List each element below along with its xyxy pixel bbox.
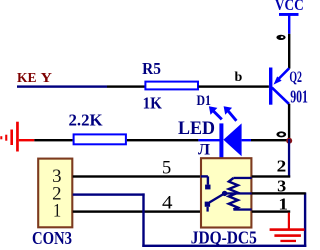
svg-text:VCC: VCC <box>275 0 304 14</box>
svg-text:4: 4 <box>162 193 173 214</box>
pin ellipse near emitter <box>276 131 286 137</box>
wire base <box>199 85 269 87</box>
relay contact lower terminal <box>205 202 210 212</box>
resistor R5 <box>145 82 198 90</box>
svg-text:Y: Y <box>41 71 53 86</box>
relay coil <box>229 178 238 210</box>
svg-text:2: 2 <box>277 157 287 176</box>
svg-text:1: 1 <box>53 201 61 221</box>
pin ellipse near VCC <box>276 35 285 40</box>
svg-text:D1: D1 <box>197 93 212 109</box>
svg-text:KE: KE <box>17 71 37 86</box>
wire KEY navy segment <box>17 85 107 87</box>
wire black to resistor 2.2K <box>34 139 72 141</box>
connector CON3 <box>38 159 72 228</box>
wire CON3 pin1 to relay pin4 <box>73 210 201 212</box>
svg-text:R5: R5 <box>142 59 161 78</box>
ground left red <box>0 122 19 152</box>
wire navy vertical right <box>304 193 306 247</box>
wire navy bottom horizontal <box>142 245 306 247</box>
wire relay pin3 to right <box>252 192 306 194</box>
relay coil top wire <box>233 177 251 179</box>
wire VCC stem blue <box>288 15 290 34</box>
svg-text:LED: LED <box>178 119 215 139</box>
svg-text:2.2K: 2.2K <box>69 111 104 130</box>
svg-text:1K: 1K <box>143 94 163 113</box>
wire VCC stem black <box>288 34 290 69</box>
wire navy vertical left <box>142 193 144 247</box>
relay arm joint dot <box>222 191 227 196</box>
LED D1 <box>198 106 251 158</box>
wire LED to junction <box>251 139 288 141</box>
wire CON3 pin3 to relay pin5 <box>73 175 201 177</box>
svg-text:JDQ-DC5: JDQ-DC5 <box>191 228 257 248</box>
svg-text:CON3: CON3 <box>32 228 72 248</box>
relay JDQ-DC5 box <box>201 158 251 227</box>
relay contact upper terminal <box>201 176 211 189</box>
wire emitter vertical black to junction <box>288 104 290 139</box>
ground right red <box>270 228 305 242</box>
svg-text:Q2: Q2 <box>289 69 302 86</box>
svg-text:1: 1 <box>278 195 288 214</box>
resistor 2.2K <box>74 134 126 144</box>
svg-text:Л: Л <box>198 142 210 159</box>
wire red from ground <box>19 139 35 141</box>
transistor Q2 <box>269 68 289 105</box>
relay switch arm <box>210 194 225 203</box>
svg-text:9013: 9013 <box>290 87 308 107</box>
wire CON3 pin2 navy horizontal <box>73 193 145 195</box>
junction dot <box>286 138 292 144</box>
svg-text:5: 5 <box>162 157 171 178</box>
wire relay pin1 to ground <box>252 210 291 212</box>
wire relay pin2 to emitter vertical <box>252 175 291 177</box>
svg-text:b: b <box>235 70 243 85</box>
wire red to ground right <box>288 213 290 229</box>
relay internal wire to pin 3 <box>225 192 252 194</box>
svg-text:3: 3 <box>277 176 286 195</box>
wire black resistor to LED <box>127 139 198 141</box>
power VCC bar symbol <box>279 13 299 16</box>
wire KEY black segment <box>107 85 145 87</box>
wire navy junction to relay pin2 <box>288 139 290 177</box>
relay coil bottom wire <box>233 208 251 210</box>
